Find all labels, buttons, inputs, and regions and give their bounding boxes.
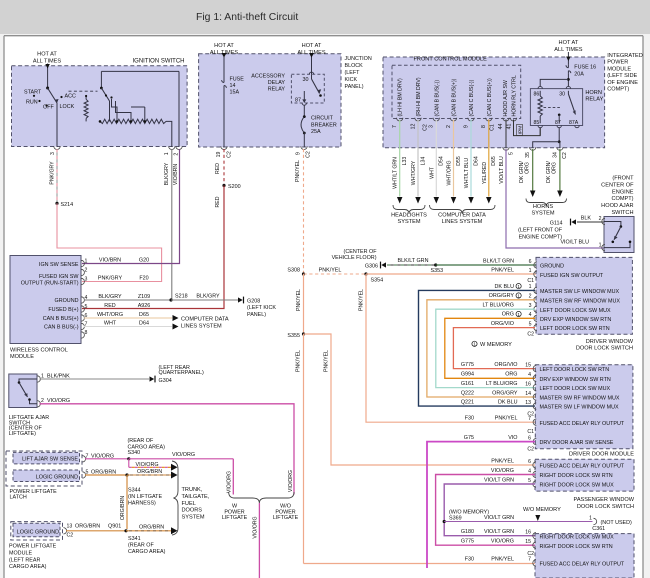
svg-text:PNK/YEL: PNK/YEL (296, 350, 302, 372)
svg-text:BLK: BLK (581, 215, 592, 221)
svg-text:C2: C2 (527, 331, 534, 337)
svg-text:HORNS: HORNS (533, 204, 553, 210)
svg-text:LOCK: LOCK (60, 104, 75, 110)
svg-text:ORG/BRN: ORG/BRN (139, 524, 164, 530)
svg-text:LIFT AJAR SW SENSE: LIFT AJAR SW SENSE (22, 457, 78, 463)
svg-text:ORG/VIO: ORG/VIO (491, 321, 514, 327)
svg-text:PNK/GRY: PNK/GRY (98, 275, 123, 281)
svg-text:OUTPUT (RUN-START): OUTPUT (RUN-START) (21, 281, 79, 287)
svg-text:COMPUTER DATA: COMPUTER DATA (438, 213, 486, 219)
svg-text:VIO/BRN: VIO/BRN (173, 164, 179, 186)
svg-text:3: 3 (85, 277, 88, 283)
svg-text:C2: C2 (423, 124, 429, 131)
svg-text:LOGIC GROUND: LOGIC GROUND (17, 530, 59, 536)
svg-text:CAN B BUS(+): CAN B BUS(+) (43, 316, 79, 322)
svg-text:FUSED ACC DELAY RLY OUTPUT: FUSED ACC DELAY RLY OUTPUT (540, 562, 625, 568)
svg-text:ORG: ORG (502, 312, 514, 318)
svg-text:C2: C2 (67, 533, 74, 539)
svg-text:30: 30 (303, 77, 309, 83)
svg-text:G304: G304 (159, 378, 172, 384)
svg-text:PNK/YEL: PNK/YEL (491, 268, 514, 274)
svg-text:G208: G208 (247, 298, 260, 304)
svg-text:5: 5 (528, 478, 531, 484)
svg-text:D55: D55 (456, 156, 462, 166)
svg-text:(IN LIFTGATE: (IN LIFTGATE (128, 494, 162, 500)
svg-text:IGN SW SENSE: IGN SW SENSE (39, 262, 79, 268)
svg-text:CARGO AREA): CARGO AREA) (128, 549, 166, 555)
svg-text:(CAN B BUS(+)): (CAN B BUS(+)) (452, 78, 458, 116)
svg-text:RELAY: RELAY (585, 97, 603, 103)
svg-text:15: 15 (525, 362, 531, 368)
svg-text:15A: 15A (230, 90, 240, 96)
svg-text:DOORS: DOORS (182, 508, 203, 514)
svg-text:S353: S353 (431, 268, 444, 274)
svg-text:S214: S214 (61, 202, 74, 208)
svg-text:VIO/BRN: VIO/BRN (99, 257, 121, 263)
svg-text:FUSED IGN SW: FUSED IGN SW (39, 274, 79, 280)
svg-text:L33: L33 (402, 157, 408, 166)
svg-text:16: 16 (525, 530, 531, 536)
svg-text:1: 1 (517, 284, 520, 289)
svg-text:(REAR OF: (REAR OF (128, 438, 154, 444)
svg-text:RIGHT DOOR LOCK SW MUX: RIGHT DOOR LOCK SW MUX (540, 534, 615, 540)
svg-text:1: 1 (85, 259, 88, 265)
svg-text:WIRELESS CONTROL: WIRELESS CONTROL (10, 348, 68, 354)
svg-text:VIO/ORG: VIO/ORG (47, 398, 70, 404)
svg-text:FUSE 16: FUSE 16 (574, 65, 596, 71)
svg-text:POWER LIFTGATE: POWER LIFTGATE (9, 544, 57, 550)
svg-text:D64: D64 (473, 156, 479, 166)
svg-text:WHT/GRY: WHT/GRY (411, 160, 417, 185)
svg-text:G994: G994 (461, 372, 474, 378)
svg-text:D65: D65 (491, 156, 497, 166)
svg-text:C1: C1 (527, 278, 534, 284)
svg-text:COMPUTER DATA: COMPUTER DATA (181, 317, 229, 323)
svg-text:C1: C1 (527, 429, 534, 435)
svg-text:6: 6 (528, 459, 531, 465)
svg-text:VEHICLE FLOOR): VEHICLE FLOOR) (332, 255, 377, 261)
svg-text:PNK/YEL: PNK/YEL (324, 350, 330, 372)
svg-text:35: 35 (525, 152, 531, 158)
svg-text:GROUND: GROUND (55, 298, 79, 304)
svg-text:14: 14 (525, 391, 531, 397)
svg-text:BLK/GRY: BLK/GRY (98, 294, 122, 300)
svg-text:ALL TIMES: ALL TIMES (554, 47, 583, 53)
svg-text:5: 5 (85, 304, 88, 310)
svg-text:VIO/ORG: VIO/ORG (136, 462, 159, 468)
svg-text:7: 7 (528, 557, 531, 563)
svg-text:VIO/ORG: VIO/ORG (491, 539, 514, 545)
svg-text:PNK/YEL: PNK/YEL (495, 416, 518, 422)
svg-text:DOOR LOCK SWITCH: DOOR LOCK SWITCH (577, 504, 634, 510)
svg-text:1: 1 (529, 284, 532, 290)
svg-text:DOOR LOCK SWITCH: DOOR LOCK SWITCH (576, 346, 633, 352)
svg-text:DRV EXP WINDOW SW RTN: DRV EXP WINDOW SW RTN (540, 317, 611, 323)
svg-text:C2: C2 (527, 551, 534, 557)
svg-text:1: 1 (473, 342, 476, 347)
svg-text:ACCESSORY: ACCESSORY (251, 73, 285, 79)
svg-text:LEFT DOOR LOCK SW MUX: LEFT DOOR LOCK SW MUX (540, 308, 611, 314)
svg-text:HORN RLY CTRL: HORN RLY CTRL (512, 75, 518, 116)
svg-text:MASTER SW LF WINDOW MUX: MASTER SW LF WINDOW MUX (540, 289, 619, 295)
svg-text:D64: D64 (139, 320, 149, 326)
svg-text:LEFT DOOR LOCK SW RTN: LEFT DOOR LOCK SW RTN (540, 326, 610, 332)
svg-text:S218: S218 (175, 294, 188, 300)
svg-text:HOT AT: HOT AT (302, 43, 322, 49)
svg-text:(REAR OF: (REAR OF (128, 542, 154, 548)
svg-text:F30: F30 (465, 556, 474, 562)
svg-text:2: 2 (85, 268, 88, 274)
svg-text:WHT: WHT (104, 320, 117, 326)
svg-text:LEFT DOOR LOCK SW RTN: LEFT DOOR LOCK SW RTN (540, 367, 610, 373)
svg-text:HORN: HORN (585, 90, 601, 96)
svg-text:OF ENGINE: OF ENGINE (607, 80, 638, 86)
svg-text:S341: S341 (128, 536, 141, 542)
svg-text:87: 87 (555, 120, 561, 126)
svg-text:Fig 1: Anti-theft Circuit: Fig 1: Anti-theft Circuit (196, 12, 298, 23)
svg-text:HOT AT: HOT AT (37, 52, 57, 58)
svg-text:Z109: Z109 (138, 294, 150, 300)
svg-text:1: 1 (529, 268, 532, 274)
svg-text:CARGO AREA): CARGO AREA) (9, 564, 47, 570)
svg-text:HOT AT: HOT AT (559, 40, 579, 46)
svg-text:20A: 20A (574, 71, 584, 77)
svg-text:85: 85 (534, 120, 540, 126)
svg-text:(LEFT FRONT OF: (LEFT FRONT OF (518, 227, 563, 233)
svg-text:VIO/ORG: VIO/ORG (227, 471, 233, 493)
svg-text:(LEFT KICK: (LEFT KICK (247, 305, 276, 311)
svg-text:OFF: OFF (43, 105, 54, 111)
svg-text:D54: D54 (439, 156, 445, 166)
svg-text:MODULE: MODULE (9, 550, 32, 556)
svg-text:ORG/GRY: ORG/GRY (492, 390, 518, 396)
svg-text:RED: RED (215, 163, 221, 174)
svg-text:3: 3 (429, 125, 435, 128)
svg-text:D65: D65 (139, 312, 149, 318)
svg-text:RIGHT DOOR LOCK SW RTN: RIGHT DOOR LOCK SW RTN (540, 544, 613, 550)
svg-text:S308: S308 (287, 268, 300, 274)
svg-text:19: 19 (216, 152, 222, 158)
svg-text:G114: G114 (550, 220, 563, 226)
svg-text:S200: S200 (228, 184, 241, 190)
svg-text:2: 2 (173, 153, 179, 156)
svg-text:RUN: RUN (26, 100, 38, 106)
svg-text:(CAN B BUS(-)): (CAN B BUS(-)) (434, 80, 440, 117)
svg-text:LATCH: LATCH (10, 495, 27, 501)
svg-text:VIO/ORG: VIO/ORG (253, 516, 259, 538)
svg-text:8: 8 (85, 330, 88, 336)
svg-text:START: START (24, 90, 42, 96)
svg-text:MODULE: MODULE (607, 66, 631, 72)
svg-text:DRIVER WINDOW: DRIVER WINDOW (586, 339, 634, 345)
svg-text:LOGIC GROUND: LOGIC GROUND (36, 474, 78, 480)
svg-text:LIFTGATE: LIFTGATE (273, 515, 299, 521)
svg-text:ORG/BRN: ORG/BRN (137, 469, 162, 475)
svg-text:S355: S355 (287, 333, 300, 339)
svg-text:Q222: Q222 (461, 390, 474, 396)
svg-text:WHT/LT GRN: WHT/LT GRN (393, 157, 399, 189)
svg-text:FUSE: FUSE (230, 77, 245, 83)
svg-text:HEADLIGHTS: HEADLIGHTS (391, 213, 427, 219)
svg-text:BLK/GRY: BLK/GRY (164, 162, 170, 185)
svg-text:13: 13 (525, 400, 531, 406)
svg-text:QUARTERPANEL): QUARTERPANEL) (159, 370, 205, 376)
svg-text:PNK/YEL: PNK/YEL (319, 268, 342, 274)
svg-text:Q901: Q901 (108, 523, 121, 529)
svg-text:WHT/ORG: WHT/ORG (447, 160, 453, 185)
svg-text:JUNCTION: JUNCTION (345, 56, 372, 62)
svg-text:G306: G306 (365, 263, 378, 269)
svg-text:PANEL): PANEL) (247, 312, 266, 318)
svg-text:S369: S369 (449, 516, 462, 522)
svg-text:RED: RED (104, 303, 115, 309)
svg-text:2: 2 (446, 125, 452, 128)
svg-text:14: 14 (230, 83, 236, 89)
svg-text:4: 4 (529, 312, 532, 318)
svg-text:YEL/RED: YEL/RED (482, 162, 488, 184)
svg-text:DRV EXP WINDOW SW RTN: DRV EXP WINDOW SW RTN (540, 377, 611, 383)
svg-text:S344: S344 (128, 488, 141, 494)
svg-text:HARNESS): HARNESS) (128, 501, 156, 507)
svg-text:VIO/LT GRN: VIO/LT GRN (484, 477, 514, 483)
svg-text:SYSTEM: SYSTEM (397, 219, 420, 225)
svg-text:ORG/BRN: ORG/BRN (120, 496, 126, 520)
svg-text:HOOD AJR SW: HOOD AJR SW (503, 80, 509, 116)
svg-text:ACC: ACC (65, 94, 76, 100)
svg-text:2: 2 (41, 398, 44, 404)
svg-text:SYSTEM: SYSTEM (182, 515, 205, 521)
svg-text:TAILGATE,: TAILGATE, (182, 494, 210, 500)
svg-text:1: 1 (599, 242, 602, 248)
svg-text:(LEFT: (LEFT (345, 70, 361, 76)
svg-text:KICK: KICK (345, 77, 358, 83)
svg-text:PNK/YEL: PNK/YEL (296, 289, 302, 311)
svg-text:13: 13 (67, 523, 73, 529)
svg-text:PNK/YEL: PNK/YEL (295, 160, 301, 182)
svg-text:16: 16 (525, 381, 531, 387)
svg-text:MODULE: MODULE (10, 354, 34, 360)
svg-text:WHT/LT BLU: WHT/LT BLU (464, 158, 470, 189)
svg-text:MASTER SW RF WINDOW MUX: MASTER SW RF WINDOW MUX (540, 298, 620, 304)
svg-text:FUEL: FUEL (182, 501, 196, 507)
svg-text:LEFT DOOR LOCK SW MUX: LEFT DOOR LOCK SW MUX (540, 386, 611, 392)
svg-text:LINES SYSTEM: LINES SYSTEM (181, 323, 222, 329)
svg-text:SWITCH: SWITCH (611, 210, 633, 216)
svg-text:G180: G180 (461, 529, 474, 535)
svg-text:S340: S340 (128, 450, 141, 456)
svg-text:ENGINE COMPT): ENGINE COMPT) (519, 234, 563, 240)
svg-text:1: 1 (164, 152, 170, 155)
svg-text:TRUNK,: TRUNK, (182, 487, 203, 493)
svg-text:LT BLU/ORG: LT BLU/ORG (486, 381, 518, 387)
svg-text:12: 12 (410, 124, 416, 130)
svg-text:F20: F20 (139, 275, 148, 281)
svg-text:PNK/GRY: PNK/GRY (50, 161, 56, 185)
svg-text:BLOCK: BLOCK (345, 63, 364, 69)
svg-text:CENTER OF: CENTER OF (601, 182, 634, 188)
svg-text:DELAY: DELAY (268, 80, 286, 86)
svg-text:41: 41 (507, 124, 513, 130)
svg-text:MASTER SW RF WINDOW MUX: MASTER SW RF WINDOW MUX (540, 396, 620, 402)
svg-text:SYSTEM: SYSTEM (531, 211, 554, 217)
svg-text:A926: A926 (138, 303, 151, 309)
svg-text:DK BLU: DK BLU (498, 400, 518, 406)
svg-text:7: 7 (392, 125, 398, 128)
svg-text:PNK/YEL: PNK/YEL (491, 458, 514, 464)
svg-text:C2: C2 (306, 151, 312, 158)
svg-text:W/O MEMORY: W/O MEMORY (523, 507, 561, 513)
svg-text:C2: C2 (527, 412, 534, 418)
svg-text:S354: S354 (371, 277, 384, 283)
svg-text:DRV DOOR AJAR SW SENSE: DRV DOOR AJAR SW SENSE (540, 440, 614, 446)
svg-text:COMPT): COMPT) (607, 87, 629, 93)
svg-text:(CENTER OF: (CENTER OF (344, 249, 378, 255)
svg-text:RIGHT DOOR LOCK SW RTN: RIGHT DOOR LOCK SW RTN (540, 473, 613, 479)
svg-text:(LEFT SIDE: (LEFT SIDE (607, 73, 637, 79)
svg-text:30: 30 (559, 91, 565, 97)
svg-text:(RH HI BM DRV): (RH HI BM DRV) (416, 77, 422, 116)
svg-text:PNK/YEL: PNK/YEL (359, 289, 365, 311)
svg-text:ORG: ORG (505, 372, 517, 378)
svg-text:9: 9 (463, 125, 469, 128)
svg-text:FUSED ACC DELAY RLY OUTPUT: FUSED ACC DELAY RLY OUTPUT (540, 421, 625, 427)
svg-text:2: 2 (529, 294, 532, 300)
svg-text:8: 8 (481, 125, 487, 128)
svg-text:FUSED ACC DELAY RLY OUTPUT: FUSED ACC DELAY RLY OUTPUT (540, 464, 625, 470)
svg-text:6: 6 (529, 259, 532, 265)
svg-text:G75: G75 (464, 435, 474, 441)
svg-text:1: 1 (517, 312, 520, 317)
svg-text:F30: F30 (465, 416, 474, 422)
svg-text:WHT/ORG: WHT/ORG (97, 312, 123, 318)
svg-text:LIFTGATE): LIFTGATE) (9, 431, 36, 437)
svg-text:GROUND: GROUND (540, 264, 564, 270)
svg-text:WHT: WHT (429, 166, 435, 179)
svg-text:4: 4 (528, 372, 531, 378)
svg-text:PNK/YEL: PNK/YEL (491, 556, 514, 562)
svg-text:5: 5 (529, 321, 532, 327)
svg-text:(CAN C BUS(+)): (CAN C BUS(+)) (487, 78, 493, 116)
svg-text:Q221: Q221 (461, 400, 474, 406)
svg-text:6: 6 (528, 435, 531, 441)
svg-text:COMPT): COMPT) (611, 196, 633, 202)
svg-text:BLK/GRY: BLK/GRY (196, 294, 220, 300)
svg-text:POWER: POWER (607, 60, 628, 66)
svg-text:4: 4 (528, 468, 531, 474)
svg-text:LT BLU/ORG: LT BLU/ORG (482, 303, 514, 309)
svg-text:C2: C2 (227, 151, 233, 158)
svg-text:FUSED IGN SW OUTPUT: FUSED IGN SW OUTPUT (540, 273, 604, 279)
svg-text:HOT AT: HOT AT (214, 43, 234, 49)
svg-text:MASTER SW LF WINDOW MUX: MASTER SW LF WINDOW MUX (540, 405, 619, 411)
svg-text:RIGHT DOOR LOCK SW MUX: RIGHT DOOR LOCK SW MUX (540, 483, 615, 489)
svg-text:VIO/LT BLU: VIO/LT BLU (499, 156, 505, 184)
svg-text:86: 86 (534, 91, 540, 97)
svg-text:L34: L34 (420, 157, 426, 166)
svg-text:9: 9 (296, 152, 302, 155)
svg-text:ORG: ORG (524, 162, 530, 174)
svg-text:(FRONT: (FRONT (612, 176, 634, 182)
svg-text:(LEFT REAR: (LEFT REAR (9, 557, 40, 563)
svg-text:BLK/LT GRN: BLK/LT GRN (483, 258, 514, 264)
svg-text:FRONT CONTROL MODULE: FRONT CONTROL MODULE (414, 57, 488, 63)
svg-text:IPM: IPM (517, 126, 523, 135)
svg-text:RELAY: RELAY (268, 86, 286, 92)
svg-text:(LH HI BM DRV): (LH HI BM DRV) (398, 78, 404, 117)
svg-text:BLK/LT GRN: BLK/LT GRN (398, 258, 429, 264)
svg-text:44: 44 (498, 124, 504, 130)
svg-text:VIO: VIO (508, 435, 517, 441)
svg-text:INTEGRATED: INTEGRATED (607, 53, 643, 59)
svg-text:3: 3 (50, 152, 56, 155)
svg-text:87: 87 (295, 98, 301, 104)
svg-text:25A: 25A (311, 129, 321, 135)
svg-text:VIO/LT GRN: VIO/LT GRN (484, 529, 514, 535)
svg-text:C2: C2 (527, 446, 534, 452)
svg-text:ORG/VIO: ORG/VIO (494, 362, 517, 368)
svg-text:VIO/LT BLU: VIO/LT BLU (560, 239, 589, 245)
svg-text:VIO/ORG: VIO/ORG (172, 452, 195, 458)
svg-text:G775: G775 (461, 362, 474, 368)
svg-text:3: 3 (529, 303, 532, 309)
svg-text:15: 15 (525, 539, 531, 545)
svg-text:ORG: ORG (551, 162, 557, 174)
svg-text:1: 1 (517, 293, 520, 298)
svg-text:1: 1 (589, 515, 592, 521)
svg-text:(NOT USED): (NOT USED) (601, 520, 633, 526)
svg-text:VIO/LT GRN: VIO/LT GRN (484, 515, 514, 521)
svg-text:C361: C361 (592, 526, 605, 532)
svg-text:FUSED B(+): FUSED B(+) (48, 307, 78, 313)
svg-text:34: 34 (552, 152, 558, 158)
svg-text:2: 2 (599, 216, 602, 222)
svg-text:C1: C1 (490, 124, 496, 131)
svg-text:LIFTGATE: LIFTGATE (222, 515, 248, 521)
svg-text:CAN B BUS(-): CAN B BUS(-) (44, 325, 79, 331)
svg-text:DRIVER DOOR MODULE: DRIVER DOOR MODULE (569, 451, 634, 457)
svg-text:5: 5 (508, 152, 514, 155)
svg-text:PANEL): PANEL) (345, 84, 364, 90)
svg-text:(CAN C BUS(-)): (CAN C BUS(-)) (469, 79, 475, 116)
svg-text:87A: 87A (569, 120, 579, 126)
svg-text:RED: RED (215, 196, 221, 207)
svg-text:C2: C2 (562, 152, 568, 159)
svg-text:IGNITION SWITCH: IGNITION SWITCH (133, 59, 185, 65)
svg-text:VIO/ORG: VIO/ORG (288, 470, 294, 492)
svg-text:CIRCUIT: CIRCUIT (311, 116, 334, 122)
svg-text:PASSENGER WINDOW: PASSENGER WINDOW (574, 497, 635, 503)
svg-text:HOOD AJAR: HOOD AJAR (601, 203, 633, 209)
svg-text:ORG/GRY: ORG/GRY (489, 293, 515, 299)
svg-text:G161: G161 (461, 381, 474, 387)
svg-text:G775: G775 (461, 539, 474, 545)
svg-text:DK BLU: DK BLU (495, 284, 515, 290)
svg-text:W MEMORY: W MEMORY (480, 342, 512, 348)
svg-text:ORG/BRN: ORG/BRN (75, 523, 100, 529)
svg-text:LINES SYSTEM: LINES SYSTEM (442, 219, 483, 225)
svg-text:G20: G20 (139, 257, 149, 263)
svg-text:BREAKER: BREAKER (311, 122, 337, 128)
svg-text:VIO/ORG: VIO/ORG (491, 468, 514, 474)
svg-text:ENGINE: ENGINE (612, 189, 634, 195)
